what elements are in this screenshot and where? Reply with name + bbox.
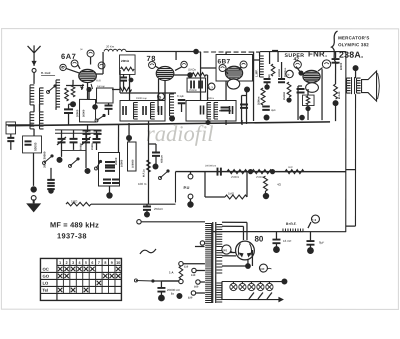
svg-text:OC: OC — [42, 267, 48, 272]
IF2 coil b — [213, 103, 215, 120]
PU corner — [174, 172, 176, 203]
wire L down — [33, 129, 35, 136]
svg-text:16 mF: 16 mF — [283, 239, 292, 243]
terminal 110 — [179, 261, 183, 265]
wire hv1 — [222, 221, 247, 223]
capacitor under box — [120, 76, 127, 78]
resistor avc 2 — [252, 170, 272, 174]
grid cap a — [71, 60, 78, 67]
wire 6B7 v — [241, 96, 243, 125]
cathode box 42 — [303, 95, 315, 106]
grid cap 6B7b — [240, 61, 247, 68]
svg-text:20000 30000: 20000 30000 — [43, 151, 47, 168]
transformer primary — [211, 223, 213, 303]
svg-text:4: 4 — [79, 261, 81, 265]
wire 42 r — [335, 63, 337, 84]
6B7 box — [216, 55, 253, 82]
grid cap S — [60, 64, 66, 70]
node avc 2 — [270, 169, 275, 174]
svg-text:FNR.: FNR. — [308, 50, 327, 59]
transformer sec top — [216, 224, 222, 226]
grid cap osc — [87, 50, 94, 57]
wire det — [266, 83, 268, 86]
svg-text:20000 cap: 20000 cap — [136, 98, 147, 100]
lamp 2 — [239, 283, 246, 290]
wire B+ vert — [345, 52, 347, 232]
svg-text:3: 3 — [72, 261, 74, 265]
tube 6A7 — [79, 69, 97, 82]
variable cap 4 — [93, 138, 101, 140]
tube 78 — [156, 66, 174, 80]
svg-text:B+R.F.: B+R.F. — [286, 222, 297, 226]
svg-text:160: 160 — [194, 284, 199, 288]
svg-text:8μF: 8μF — [319, 241, 324, 245]
wire spk down — [354, 94, 356, 226]
variable cap 2 — [70, 138, 78, 140]
padder box 6A7 — [80, 99, 96, 122]
svg-text:Jall cap: Jall cap — [97, 86, 106, 88]
circle 301 — [222, 245, 231, 254]
IF2 cap b — [229, 106, 231, 114]
resistor 20K box — [120, 55, 136, 75]
grid cap 78a — [149, 61, 156, 68]
lamp 5 — [266, 283, 273, 290]
IF1 cap b — [158, 106, 160, 115]
svg-text:L.MF.: L.MF. — [255, 69, 259, 77]
IF1 coil a — [133, 102, 135, 119]
resistor 400Km — [271, 64, 275, 76]
wire left col down — [32, 153, 34, 186]
switch g1 — [69, 164, 72, 167]
svg-text:10000: 10000 — [120, 159, 124, 167]
svg-text:250Km: 250Km — [257, 96, 261, 105]
resistor 42 grid — [334, 84, 338, 99]
svg-text:50000: 50000 — [339, 62, 343, 70]
antenna — [28, 45, 41, 66]
transformer core — [212, 222, 214, 303]
svg-text:5: 5 — [85, 261, 87, 265]
svg-text:240: 240 — [260, 267, 265, 271]
svg-text:100000: 100000 — [132, 159, 135, 168]
resistor 1M loop — [204, 172, 206, 197]
svg-text:100 m: 100 m — [138, 182, 147, 186]
svg-text:20KΩ: 20KΩ — [121, 59, 130, 63]
lamp 3 — [248, 283, 255, 290]
wire antenna down — [33, 72, 35, 84]
grid cap right — [98, 62, 105, 69]
main bus — [8, 122, 330, 126]
circle 7+8 — [311, 215, 319, 223]
IF2 cap mid — [221, 107, 230, 109]
terminal 130 — [192, 268, 196, 272]
terminal 160 — [196, 280, 200, 284]
variable cap 1 — [58, 138, 66, 140]
resistor 4ohm — [263, 176, 267, 191]
node 8uF — [307, 247, 314, 254]
node 16mF — [273, 246, 280, 253]
node 42 grid — [333, 100, 339, 106]
bus 2 — [175, 171, 345, 173]
switch mains — [134, 279, 137, 282]
resistor avc 1 — [227, 170, 247, 174]
capacitor 6A7 r — [105, 104, 113, 106]
capacitor 8uF — [306, 240, 314, 242]
wire top bus — [126, 50, 196, 52]
tube 42 — [303, 70, 320, 82]
svg-text:20 Km: 20 Km — [106, 44, 115, 48]
junction left — [30, 186, 36, 192]
svg-text:Tel: Tel — [42, 288, 48, 293]
capacitor 0.1 a — [64, 108, 73, 110]
wire 6B7 top — [259, 52, 261, 57]
node 450 — [153, 163, 159, 169]
svg-text:10: 10 — [116, 261, 120, 265]
svg-text:20000: 20000 — [91, 143, 94, 150]
wire s line — [66, 85, 84, 87]
coil L2b — [39, 112, 41, 129]
wire 78 plate — [164, 80, 166, 99]
transformer sec bot — [216, 282, 222, 284]
lamp line top — [222, 281, 285, 283]
speaker — [362, 71, 377, 101]
IF1 can — [120, 100, 165, 121]
node top1 — [193, 49, 199, 55]
svg-text:20000: 20000 — [75, 109, 79, 117]
switch S1 band — [47, 90, 50, 93]
resistor avc — [120, 88, 132, 92]
brace — [332, 31, 338, 64]
terminal fuse bot — [179, 279, 183, 283]
lamp 4 — [257, 283, 264, 290]
svg-text:4μF: 4μF — [271, 108, 276, 112]
capacitor 4uF — [262, 106, 270, 108]
svg-text:250Km: 250Km — [231, 175, 239, 179]
wire 42 gnd — [335, 103, 337, 121]
coil L1b — [39, 88, 41, 104]
svg-text:110: 110 — [184, 264, 189, 268]
svg-text:9: 9 — [111, 261, 113, 265]
IF1 cap a — [122, 106, 124, 115]
node mid3 — [206, 120, 211, 125]
node osc — [169, 115, 175, 121]
grid cap 78b — [181, 61, 187, 67]
coil L1 antenna — [29, 85, 31, 105]
svg-text:OLYMPIC 382: OLYMPIC 382 — [338, 42, 369, 47]
node det — [264, 115, 270, 121]
output transformer — [351, 77, 353, 94]
capacitor edge — [6, 122, 16, 134]
svg-text:GO: GO — [42, 274, 49, 279]
svg-text:MF = 489 kHz: MF = 489 kHz — [50, 220, 99, 229]
PU terminal 2 — [188, 194, 193, 199]
svg-text:AVC: AVC — [288, 166, 293, 169]
IF1 coil b — [150, 102, 152, 119]
svg-text:M.F.49: M.F.49 — [338, 91, 341, 99]
wire top bus rise — [102, 52, 104, 74]
svg-text:M.F.1a: M.F.1a — [142, 169, 145, 177]
svg-text:50000: 50000 — [34, 142, 38, 151]
svg-text:250cm: 250cm — [154, 207, 164, 211]
wire screen — [321, 69, 323, 120]
IF2 can — [186, 100, 236, 121]
wire 6A7 plate — [87, 83, 89, 99]
node padder — [106, 192, 112, 198]
capacitor bus b — [94, 129, 102, 131]
wire 42 — [335, 52, 337, 59]
node g2 — [84, 168, 90, 174]
svg-text:1937-38: 1937-38 — [57, 231, 87, 240]
svg-text:238A.: 238A. — [339, 50, 363, 60]
grid cap 42a — [294, 61, 302, 69]
terminal ring — [31, 196, 36, 201]
loop 100000 — [127, 142, 136, 171]
switch osc2 — [95, 119, 98, 122]
capacitor bus a — [83, 129, 91, 131]
wire line y222 — [141, 221, 205, 223]
coil LMF — [259, 56, 261, 77]
tube 80 — [236, 241, 255, 260]
svg-text:7+8: 7+8 — [312, 218, 317, 222]
capacitor pad — [47, 179, 55, 181]
resistor 6A7 bias — [71, 85, 75, 97]
svg-text:P.U: P.U — [183, 186, 189, 190]
padder cap 1 — [105, 161, 115, 163]
node 42 left — [298, 70, 303, 75]
tube 6B7 wires — [225, 71, 228, 75]
coil ant sec — [55, 80, 57, 107]
capacitor det — [264, 78, 271, 80]
svg-text:250000: 250000 — [283, 91, 286, 100]
band table — [40, 258, 121, 300]
capacitor 50000 box — [23, 136, 42, 153]
node mains — [176, 293, 182, 299]
diode load wires — [201, 67, 217, 69]
lamp line bottom — [222, 299, 279, 301]
capacitor 250cm — [143, 205, 151, 207]
wire osc bus — [120, 92, 176, 94]
wire hv2 — [222, 252, 236, 254]
switch g2 — [43, 161, 46, 164]
capacitor 450 — [152, 151, 160, 153]
PU terminal 1 — [188, 174, 193, 179]
variable cap 3 — [82, 138, 90, 140]
wire if1 down — [147, 121, 149, 204]
node avc 1 — [248, 169, 253, 174]
wire 78 right — [173, 74, 190, 76]
wire k — [72, 80, 74, 85]
squiggle mains — [140, 249, 156, 254]
lamp 1 — [230, 283, 237, 290]
PU node — [187, 201, 193, 207]
svg-text:LO: LO — [42, 281, 49, 286]
svg-text:7: 7 — [98, 261, 100, 265]
svg-text:2: 2 — [66, 261, 68, 265]
B+ line — [213, 231, 346, 233]
svg-text:R.fil: R.fil — [96, 78, 101, 82]
capacitor 0.1 osc — [178, 99, 186, 101]
circle S2 — [158, 93, 165, 100]
resistor 250Km v — [261, 88, 265, 105]
bus 3 — [91, 203, 175, 205]
lamp switches — [249, 293, 254, 300]
resistor avc 3 — [285, 170, 304, 174]
IF2 coil a — [206, 103, 208, 119]
box osc grid — [97, 88, 114, 103]
resistor 6A7 bias2 — [65, 88, 69, 101]
svg-text:450cm: 450cm — [161, 154, 164, 163]
svg-text:0,1μF: 0,1μF — [177, 94, 185, 98]
wire mid v — [118, 125, 120, 153]
terminal 220 — [191, 291, 195, 295]
svg-text:6: 6 — [91, 261, 93, 265]
capacitor avc series — [216, 168, 218, 176]
svg-text:(m: (m — [80, 49, 83, 51]
padder cap 2 — [103, 178, 111, 180]
wire 6A7 grid — [66, 68, 79, 73]
svg-text:200000cm: 200000cm — [205, 165, 216, 168]
svg-text:8: 8 — [104, 261, 106, 265]
coil L2 — [29, 112, 31, 129]
svg-text:R. med: R. med — [41, 71, 51, 75]
svg-text:1.3: 1.3 — [209, 85, 213, 89]
ground — [26, 203, 41, 212]
svg-text:80: 80 — [254, 235, 263, 244]
node spk — [353, 65, 359, 71]
node top2 — [272, 50, 278, 52]
svg-text:400000: 400000 — [278, 68, 281, 77]
node 4ohm — [263, 193, 269, 199]
coil 20Km top — [104, 49, 126, 51]
capacitor 16mF — [272, 239, 280, 241]
svg-text:250Km: 250Km — [189, 89, 197, 92]
bus ground ticks — [87, 125, 89, 132]
svg-text:50Km: 50Km — [208, 98, 214, 100]
tube 6B7 — [225, 66, 242, 80]
wire osc v — [157, 96, 159, 112]
wire rect out — [247, 260, 249, 267]
circle 240 — [259, 264, 267, 272]
IF2 cap a — [200, 106, 202, 115]
capacitor mains — [157, 287, 165, 289]
grid cap 6B7a — [219, 65, 226, 72]
IF1 cap m — [142, 106, 144, 115]
switch osc — [158, 176, 161, 179]
svg-text:130: 130 — [191, 273, 196, 277]
node mid2 — [126, 135, 132, 141]
coil osc — [169, 94, 171, 116]
fuse — [179, 266, 183, 279]
svg-text:20000: 20000 — [114, 157, 118, 165]
svg-text:220: 220 — [188, 295, 193, 299]
svg-text:(1KΩs: (1KΩs — [188, 67, 196, 71]
circle 1-3 — [208, 83, 215, 90]
capacitor 400000 — [278, 78, 285, 80]
node 42k — [305, 106, 310, 111]
wire edge bus — [6, 124, 33, 126]
node 6B7 — [244, 87, 250, 93]
svg-text:50000: 50000 — [82, 109, 86, 117]
capacitor coupling 42 — [332, 58, 340, 60]
node g1 — [57, 157, 63, 163]
grid cap 42b — [322, 60, 330, 68]
padder box — [98, 152, 119, 186]
svg-text:1: 1 — [59, 261, 61, 265]
svg-text:MERCATOR'S: MERCATOR'S — [338, 35, 369, 40]
resistor mf1a — [147, 160, 151, 172]
svg-text:301: 301 — [223, 248, 228, 252]
tube 6A7 electrodes — [82, 84, 93, 90]
node 6A7 junction — [70, 101, 76, 107]
svg-text:250Km: 250Km — [256, 175, 264, 179]
svg-text:20000 cm: 20000 cm — [167, 288, 181, 292]
node box — [92, 104, 98, 110]
svg-text:1MΩ: 1MΩ — [228, 192, 234, 196]
wire gang top — [55, 129, 100, 131]
capacitor det box — [187, 78, 206, 92]
